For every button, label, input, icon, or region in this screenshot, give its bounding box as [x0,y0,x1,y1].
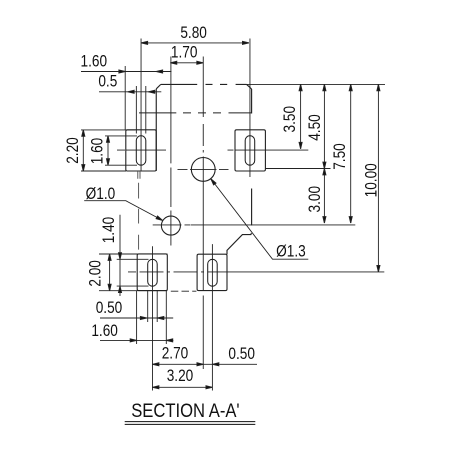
ext BL tab edges down [137,291,167,344]
svg-text:3.20: 3.20 [167,367,194,386]
svg-text:Ø1.0: Ø1.0 [86,185,116,204]
label 0.50 bottom-left [96,299,123,318]
centerline small hole vertical [170,57,172,246]
dim 2.20 line [82,130,84,171]
ext BL tab bottom [99,290,167,292]
centerline tabs bottom dashes [171,290,197,292]
svg-text:1.60: 1.60 [91,322,118,341]
svg-text:Ø1.3: Ø1.3 [276,242,306,261]
body bottom edge left [99,253,168,255]
svg-text:0.50: 0.50 [228,345,255,364]
svg-text:2.20: 2.20 [64,137,83,164]
dim 0.50 bottom-right line [203,363,257,365]
svg-text:5.80: 5.80 [180,24,207,43]
slot TR [245,136,255,166]
body top-left chamfer [156,84,161,88]
body right edge upper [251,89,253,114]
hole small circle [161,216,180,235]
label 1.60 left [88,138,107,165]
label 3.50 [281,106,300,133]
ext left slot top [105,135,137,137]
dim 2.00 line [109,254,111,291]
dim 1.60 left line [107,136,109,165]
tab TL [126,130,156,171]
svg-text:0.5: 0.5 [98,72,117,91]
label 2.70 [162,344,189,363]
slot TL [136,136,146,166]
centerline top slots horizontal right [228,149,309,151]
dim 3.00 line [323,169,325,224]
slot BM [208,259,218,286]
ext tab TL left edge up [124,66,126,130]
dim 3.50 line [300,84,302,148]
centerline small hole horizontal [153,224,356,226]
label 5.80 [180,24,207,43]
ext BL slot bottom [117,285,149,287]
dim 7.50 line [350,84,352,223]
svg-text:3.00: 3.00 [306,186,325,213]
label dia1.0 [86,185,116,204]
label 0.5 [98,72,117,91]
svg-text:1.60: 1.60 [88,138,107,165]
dim 10.00 line [377,84,379,272]
svg-text:4.50: 4.50 [306,114,325,141]
tab BM [197,254,227,290]
label 4.50 [306,114,325,141]
centerline slot BL vertical [151,246,153,390]
label 1.40 [100,217,119,244]
dim 1.70 line [170,62,203,64]
body right edge lower [251,189,253,226]
ext left tab top [81,129,136,131]
label 3.00 [306,186,325,213]
svg-text:2.70: 2.70 [162,344,189,363]
hole big circle [191,158,215,182]
dim 3.20 line [152,386,212,388]
tab BL [137,254,167,291]
label 2.00 [86,260,105,287]
svg-text:7.50: 7.50 [331,143,350,170]
dim 1.60 top line [81,71,171,73]
title SECTION A-A' [131,399,239,422]
leader dia 1.3 [211,179,308,259]
label dia1.3 [276,242,306,261]
ext slot TL edges up [136,86,145,134]
dim 1.60 bottom line [100,339,173,341]
svg-text:1.60: 1.60 [81,52,108,71]
slot BL [148,259,158,286]
centerline slot TR vertical [249,39,251,178]
dim 0.50 bottom-left line [100,317,173,319]
svg-text:10.00: 10.00 [362,163,381,197]
label 0.50 bottom-right [228,345,255,364]
label 3.20 [167,367,194,386]
dim 0.5 line [99,91,161,93]
ext tab bottom level right [265,168,330,170]
centerline slot TL vertical [140,39,142,172]
body top-right chamfer [247,84,252,89]
dim 2.70 line [152,363,203,365]
svg-text:1.40: 1.40 [100,217,119,244]
label 10.00 [362,163,381,197]
ext left tab bottom [81,170,126,172]
ext BL slot top [117,258,149,260]
ext top edge right [247,83,385,85]
body left edge [155,89,157,171]
centerline top slots horizontal left [117,149,166,151]
svg-text:2.00: 2.00 [86,260,105,287]
leader dia 1.0 [84,201,162,221]
label 7.50 [331,143,350,170]
dim 4.50 line [323,84,325,168]
label 2.20 [64,137,83,164]
label 1.60 top [81,52,108,71]
hidden leg stubs left [138,171,140,179]
body shoulder line [139,112,252,114]
title underline double [125,422,256,425]
centerline big hole vertical [202,57,204,370]
tab TR [235,130,265,171]
svg-text:0.50: 0.50 [96,299,123,318]
centerline big hole horizontal [178,168,229,170]
body lower-right ledge [227,233,251,254]
label 1.70 [171,43,198,62]
dim 1.40 line [119,215,121,296]
body top edge [161,83,247,85]
svg-text:3.50: 3.50 [281,106,300,133]
centerline slot BM vertical [211,244,213,390]
svg-text:1.70: 1.70 [171,43,198,62]
centerline bottom slots horizontal [128,271,384,273]
hidden dashed line left [138,183,140,250]
ext BL slot edges down [148,291,158,322]
label 1.60 bottom [91,322,118,341]
ext left slot bottom [105,164,137,166]
dim 5.80 line [141,42,249,44]
svg-text:SECTION A-A': SECTION A-A' [131,399,239,422]
